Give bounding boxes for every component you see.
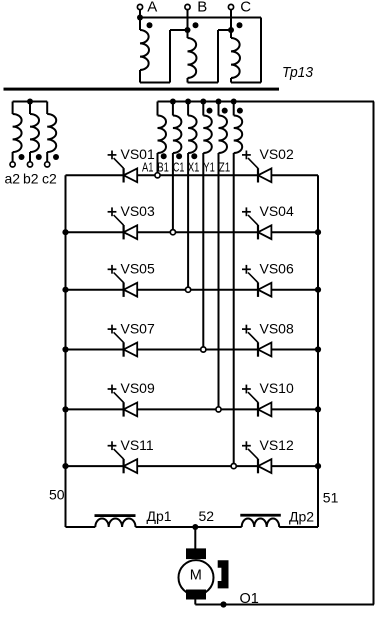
svg-text:Др2: Др2 [289,509,314,525]
svg-text:VS12: VS12 [260,437,294,453]
svg-text:VS04: VS04 [260,203,294,219]
svg-text:c2: c2 [42,171,57,187]
svg-text:51: 51 [323,490,339,506]
svg-text:VS11: VS11 [121,437,154,453]
svg-text:VS06: VS06 [260,261,294,277]
svg-text:Z1: Z1 [219,159,231,174]
svg-text:B: B [197,0,207,16]
svg-text:VS10: VS10 [260,380,294,396]
svg-text:b2: b2 [23,171,39,187]
svg-text:A: A [147,0,157,16]
svg-text:X1: X1 [188,159,200,174]
svg-text:О1: О1 [240,591,259,607]
svg-text:C1: C1 [173,159,185,174]
svg-text:М: М [190,568,202,584]
svg-text:VS01: VS01 [121,146,155,162]
svg-text:VS02: VS02 [260,146,294,162]
svg-text:VS03: VS03 [121,203,155,219]
svg-text:Y1: Y1 [203,159,215,174]
svg-text:Тр13: Тр13 [282,64,314,81]
svg-text:VS07: VS07 [121,320,155,336]
svg-text:VS09: VS09 [121,380,155,396]
svg-text:C: C [240,0,251,16]
svg-text:50: 50 [49,487,65,503]
svg-text:B1: B1 [157,159,169,174]
svg-text:VS08: VS08 [260,320,294,336]
svg-text:VS05: VS05 [121,261,155,277]
svg-text:a2: a2 [5,171,21,187]
svg-text:Др1: Др1 [147,508,172,524]
svg-text:52: 52 [199,508,215,524]
